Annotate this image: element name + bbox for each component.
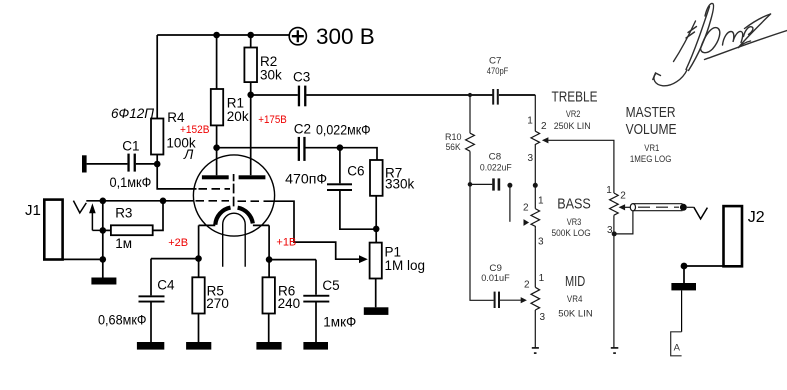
ground mid pot [532,347,539,349]
signature c-humps [723,31,743,45]
svg-text:VR4: VR4 [567,294,583,305]
svg-text:56K: 56K [446,142,462,153]
svg-text:0,68мкФ: 0,68мкФ [98,313,147,328]
jack J1 body [44,200,62,260]
ground R6 [256,342,281,350]
resistor R10 zigzag [466,133,475,151]
ground C4 [137,342,164,350]
svg-text:C8: C8 [489,152,502,163]
node C2-C6 [337,144,344,151]
svg-text:270: 270 [206,296,229,311]
signature hatch ticks [686,27,697,39]
ground R5 [186,342,211,350]
wire left cathode tap [199,225,216,277]
svg-text:0.022uF: 0.022uF [480,163,512,174]
capacitor C4 plates [139,295,165,302]
VR1 wiper arrow [619,204,626,210]
svg-text:+2В: +2В [168,237,188,249]
wire C9 right lead [500,299,521,301]
node R2-C3 [247,92,254,99]
wire right cathode tap [253,225,269,277]
wire R5 to ground [198,314,200,343]
wire C8 left lead [470,183,492,185]
capacitor C1 plates [127,154,136,172]
wire R10 to C9 corner [470,151,494,300]
node J2-gnd [681,263,688,270]
wire C2 to R7 corner [306,148,378,160]
jack J2 tip contact V [694,207,708,219]
svg-text:470pF: 470pF [487,66,509,77]
node R10-C8 [468,182,473,187]
wire R6 to ground [268,314,270,343]
jack J2 body [724,206,743,266]
resistor R4 100k [151,119,163,155]
node VR1-shield [612,231,617,236]
ground P1 [364,307,389,315]
svg-text:P1: P1 [385,244,402,259]
svg-text:J2: J2 [748,209,765,226]
svg-text:0,1мкФ: 0,1мкФ [110,175,152,190]
capacitor C8 plates [492,178,500,190]
wire upper grid feed [157,164,196,189]
tube upper grid dashes [199,188,231,190]
node treble-bass [533,183,538,188]
capacitor C5 plates [303,295,329,303]
wire R1 branch top [216,35,218,89]
node C1-R4 [154,161,161,168]
svg-text:C6: C6 [347,164,364,179]
ground J1 [91,278,116,285]
jack J1 input arrow [89,203,96,213]
wire C6 branch [339,148,341,184]
mid wiper arrow [521,297,527,303]
svg-text:240: 240 [278,296,301,311]
svg-text:C4: C4 [157,278,175,293]
treble wiper arrow [542,137,549,143]
svg-text:2: 2 [620,191,626,202]
svg-text:250K LIN: 250K LIN [554,121,591,132]
svg-text:2: 2 [524,279,530,290]
cable body bottom [633,210,683,212]
svg-text:1: 1 [539,273,545,284]
potentiometer VR2 treble zigzag [531,131,540,146]
svg-text:1M log: 1M log [385,258,426,273]
svg-text:VR2: VR2 [566,109,581,120]
wire top supply rail [157,34,289,36]
svg-text:1: 1 [527,115,533,126]
wire input node run [86,200,194,202]
tube right anode plate [239,175,266,179]
svg-text:+152В: +152В [180,124,210,136]
svg-text:500K LOG: 500K LOG [552,228,591,239]
wire J1 sleeve to ground node [63,258,103,260]
wire R1 bottom to left anode [216,125,218,175]
node R1-C2 [213,144,220,151]
connector A box [671,332,682,356]
ground C5 [303,342,328,350]
wire triode grid out to P1 wiper [264,201,360,259]
wire VR1 bottom to ground [613,215,615,348]
svg-text:C1: C1 [122,138,139,153]
wire VR1 wiper stub [625,206,630,208]
svg-text:C3: C3 [293,70,310,85]
potentiometer VR3 bass zigzag [531,209,540,229]
resistor R2 30k [244,48,257,83]
svg-text:2: 2 [541,121,547,132]
svg-text:3: 3 [538,237,544,248]
cable right end dot [680,204,687,211]
svg-text:Л: Л [183,147,194,162]
signature descender hook with arrow [654,70,687,86]
svg-text:R3: R3 [115,206,132,221]
junction dots right [468,93,617,237]
svg-text:A: A [674,343,681,354]
jack J1 tip contact V [73,201,86,213]
svg-text:20k: 20k [227,109,249,124]
tube heater [223,213,246,267]
resistor R5 270 [192,277,204,313]
signature bowl loop [701,28,720,53]
svg-text:J1: J1 [25,202,41,219]
wire R3 left lead [103,229,111,231]
cable shield drop [614,211,633,234]
svg-text:0.01uF: 0.01uF [481,273,510,284]
signature z top [744,27,753,37]
svg-text:3: 3 [607,225,613,236]
signature long tail [705,31,787,60]
resistor R6 240 [263,277,275,313]
power terminal circle [289,28,306,45]
cable body top [633,203,683,205]
wire C4 branch [151,259,199,342]
node C8-stub [507,183,512,188]
svg-text:300 В: 300 В [316,24,375,49]
svg-text:0,022мкФ: 0,022мкФ [316,123,371,138]
tube cathode right arc [238,208,253,224]
svg-text:VR1: VR1 [644,143,659,154]
wire C6 bottom to R7 node [340,191,376,229]
wire R4 branch vertical [156,35,158,164]
wire R2 top stub [250,35,252,48]
svg-text:330k: 330k [385,177,415,192]
svg-text:VR3: VR3 [567,217,582,228]
capacitor C2 plates [298,137,306,161]
svg-text:2: 2 [523,203,529,214]
node rail-R1 [213,32,220,39]
svg-text:1: 1 [538,196,544,207]
node input-top [100,198,107,205]
node cathode-left [195,255,202,262]
capacitor C6 plates [327,183,352,191]
wire cable to V [687,206,694,208]
capacitor C1 input terminal [82,155,87,172]
wire input shunt vertical [102,201,104,278]
node cathode-right [266,256,273,263]
node C7-R10 [468,93,472,97]
wire R7 to P1 [375,196,377,243]
svg-text:3: 3 [528,153,534,164]
power terminal plus [292,30,304,42]
wire C5 branch [269,260,316,343]
tube V1 envelope [193,155,274,236]
wire treble chain vertical [534,95,536,348]
ground J2 chassis [671,283,696,290]
svg-text:MID: MID [565,273,585,290]
svg-text:VOLUME: VOLUME [626,121,677,138]
capacitor C3 plates [298,86,307,107]
potentiometer VR4 mid zigzag [531,287,540,310]
svg-text:3: 3 [540,312,546,323]
potentiometer VR1 zigzag [610,193,619,215]
svg-text:30k: 30k [260,68,282,83]
capacitor C7 plates [492,89,499,105]
svg-text:R4: R4 [167,110,185,125]
tube left anode plate [202,175,229,179]
wire J2 chassis to A [681,290,683,331]
resistor R1 20k [211,89,223,125]
bass wiper arrow [524,219,530,226]
potentiometer P1 body [370,243,382,279]
wire C3 output run [251,94,536,96]
svg-text:MASTER: MASTER [626,104,676,121]
svg-text:TREBLE: TREBLE [552,89,598,106]
cable core dashed [638,206,679,208]
node rail-R2 [247,32,254,39]
svg-text:1мкФ: 1мкФ [323,315,356,330]
svg-text:1м: 1м [115,236,132,251]
node J1-gnd [100,256,107,263]
resistor R3 1M [111,225,153,235]
svg-text:C5: C5 [322,278,339,293]
svg-text:1MEG LOG: 1MEG LOG [630,154,672,165]
wire C1 input link [87,163,158,165]
capacitor C9 plates [494,292,500,308]
junction dots left [100,32,688,270]
svg-text:470пФ: 470пФ [285,171,327,186]
signature flourish [653,3,787,85]
tube lower grid dashes left [196,200,230,202]
node input-grid [160,198,167,205]
svg-text:+175В: +175В [258,114,287,126]
wire C8 stub down to bass wiper [509,185,511,222]
tube lower grid dashes right [238,200,264,202]
wire J2 sleeve [684,266,724,283]
cable left opening ellipse [630,204,635,211]
signature tall slashes [689,3,714,70]
wire R2 bottom to right anode [250,82,252,175]
node R3-left [100,227,107,234]
svg-text:1: 1 [606,185,612,196]
wire R10 branch top [469,95,471,133]
node R7-P1 [373,226,380,233]
ground VR1 [611,347,619,349]
wire treble wiper to VR1 [548,140,614,193]
svg-text:6Ф12П: 6Ф12П [111,106,154,121]
tube cathode left arc [215,208,230,225]
signature z diagonal [738,14,771,48]
potentiometer P1 wiper arrow [359,255,368,263]
svg-text:BASS: BASS [557,195,591,212]
svg-text:C2: C2 [294,121,311,136]
svg-text:50K LIN: 50K LIN [558,308,593,319]
tube center divider dashes [233,174,235,206]
wire anode to C2 [217,147,298,149]
wire R3 right lead up [153,201,163,231]
resistor R7 330k [370,160,383,196]
svg-text:+1В: +1В [276,236,296,248]
wire P1 to ground [375,279,377,308]
